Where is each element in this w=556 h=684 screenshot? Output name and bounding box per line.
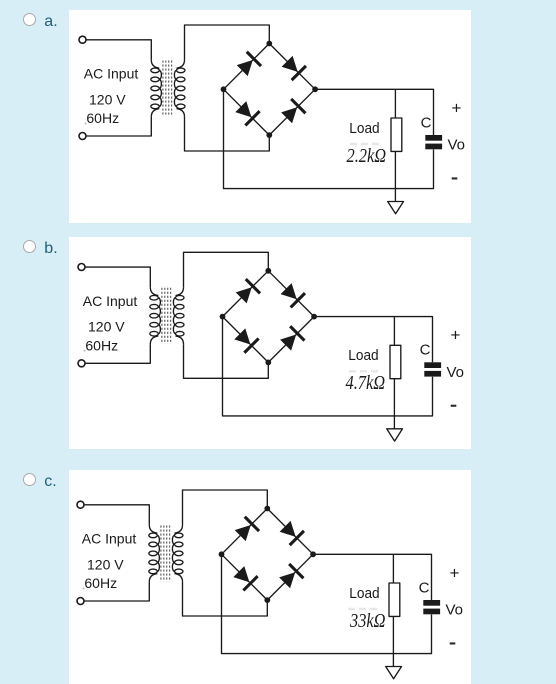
svg-text:C: C xyxy=(420,342,431,359)
svg-text:Vo: Vo xyxy=(447,364,465,381)
svg-text:AC Input: AC Input xyxy=(82,530,137,546)
svg-text:120 V: 120 V xyxy=(89,91,126,107)
svg-text:60Hz: 60Hz xyxy=(85,337,118,353)
svg-text:60Hz: 60Hz xyxy=(86,110,119,126)
svg-text:+: + xyxy=(450,563,460,582)
svg-text:120 V: 120 V xyxy=(88,319,125,335)
svg-text:AC Input: AC Input xyxy=(84,65,139,81)
svg-text:+: + xyxy=(451,326,461,345)
svg-text:C: C xyxy=(421,114,432,131)
svg-text:+: + xyxy=(452,98,462,117)
svg-text:Load: Load xyxy=(349,585,379,602)
svg-text:AC Input: AC Input xyxy=(83,293,138,309)
svg-text:33kΩ: 33kΩ xyxy=(349,609,385,632)
svg-text:120 V: 120 V xyxy=(87,556,124,572)
svg-text:C: C xyxy=(419,579,430,596)
svg-text:4.7kΩ: 4.7kΩ xyxy=(346,371,386,394)
svg-text:Vo: Vo xyxy=(448,136,466,153)
svg-text:Vo: Vo xyxy=(446,601,464,618)
svg-text:Load: Load xyxy=(348,347,378,364)
svg-text:60Hz: 60Hz xyxy=(84,575,117,591)
svg-text:Load: Load xyxy=(349,120,379,137)
svg-text:2.2kΩ: 2.2kΩ xyxy=(347,144,387,167)
